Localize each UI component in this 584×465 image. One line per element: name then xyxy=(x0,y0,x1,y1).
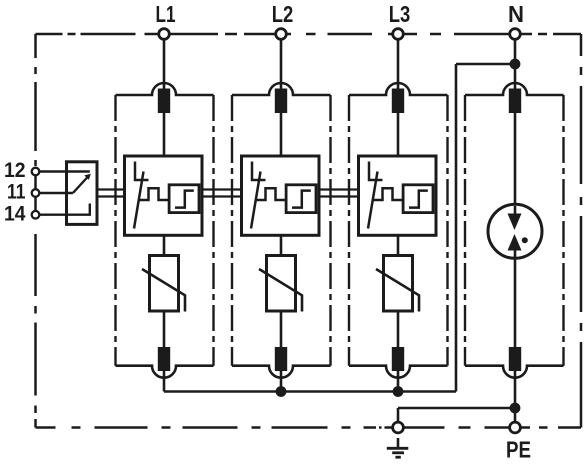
switch box L2 xyxy=(242,156,320,235)
wire N bottom contact to PE terminal xyxy=(514,371,517,422)
module N-PE left border xyxy=(464,95,466,366)
module L2 bottom edge with socket arch xyxy=(232,366,331,378)
wire L2 varistor to bottom contact xyxy=(280,311,283,347)
varistor L3 strike line xyxy=(376,269,419,312)
wire L3 varistor to bottom contact xyxy=(397,311,400,347)
module L1 right border xyxy=(212,95,214,366)
wire L2 contact to switch box xyxy=(280,113,283,156)
switch L2 blade xyxy=(251,172,261,229)
terminal 11 xyxy=(32,189,40,197)
mechanical linkage remote contact to L1 xyxy=(97,190,125,197)
switch L1 trigger waveform xyxy=(139,188,169,200)
outer border top span L1-L2 xyxy=(164,33,281,36)
trigger unit box L2 xyxy=(286,185,316,213)
wire riser to N node xyxy=(456,63,515,66)
module N-PE right border xyxy=(562,95,564,366)
junction node N top xyxy=(510,59,521,70)
wire L3 switch box to varistor xyxy=(397,235,400,256)
thermal disconnector contact bottom L1 xyxy=(158,347,170,371)
module L3 right border xyxy=(446,95,448,366)
terminal 14 xyxy=(32,211,40,219)
spark gap upper electrode arrow xyxy=(508,214,522,231)
svg-text:11: 11 xyxy=(7,181,26,204)
N bus riser wire xyxy=(455,64,458,392)
wire L1 contact to switch box xyxy=(163,113,166,156)
module N-PE top edge with socket arch xyxy=(465,83,564,95)
terminal 12 xyxy=(32,168,40,176)
varistor L3 xyxy=(384,256,413,312)
junction node bus L3 xyxy=(393,386,404,397)
wire L1 bottom contact to N bus xyxy=(163,371,166,392)
remote contact box xyxy=(67,162,98,225)
outer border top-left span xyxy=(36,33,165,36)
terminal 11 wire xyxy=(39,192,73,194)
thermal disconnector contact top L1 xyxy=(158,89,170,114)
svg-text:L3: L3 xyxy=(389,1,411,27)
wire L1 varistor to bottom contact xyxy=(163,311,166,347)
outer border bottom span ground-PE xyxy=(398,426,515,429)
outer border left side solid segment at terminals 12 11 14 xyxy=(34,167,37,219)
terminal L3 xyxy=(393,29,404,40)
module L1 top edge with socket arch xyxy=(116,83,214,95)
wire ground branch horizontal xyxy=(398,407,515,410)
spark gap N-PE circle xyxy=(488,204,542,258)
thermal disconnector contact bottom L2 xyxy=(275,347,287,371)
outer border bottom-right span xyxy=(515,426,581,429)
wire N terminal to top contact xyxy=(514,39,517,89)
module L1 bottom edge with socket arch xyxy=(116,366,214,378)
outer border top span L2-L3 xyxy=(281,33,398,36)
thermal disconnector contact bottom N xyxy=(509,347,521,371)
outer border bottom-left span xyxy=(36,426,399,429)
ground symbol bar 2 xyxy=(392,451,404,454)
thermal disconnector contact bottom L3 xyxy=(392,347,404,371)
svg-text:L1: L1 xyxy=(156,1,176,27)
varistor L1 xyxy=(150,256,179,312)
varistor L2 xyxy=(267,256,296,312)
module L2 left border xyxy=(231,95,233,366)
spark gap wire through circle top xyxy=(514,206,517,218)
terminal L1 xyxy=(159,29,170,40)
terminal 14 wire xyxy=(39,204,90,215)
wire spark gap to bottom contact xyxy=(514,257,517,347)
thermal disconnector contact top N xyxy=(509,89,521,114)
spark gap indicator dot xyxy=(522,237,528,243)
ground symbol bar 1 xyxy=(387,447,409,450)
module L3 bottom edge with socket arch xyxy=(349,366,448,378)
outer border right side xyxy=(580,34,583,428)
terminal ground xyxy=(393,422,404,433)
switch L3 fixed contact stub xyxy=(369,162,383,181)
svg-text:PE: PE xyxy=(506,437,531,463)
switch L2 fixed contact stub xyxy=(252,162,266,181)
trigger unit step symbol L3 xyxy=(409,191,428,208)
module L3 top edge with socket arch xyxy=(349,83,448,95)
terminal PE xyxy=(510,422,521,433)
spark gap wire through circle bottom xyxy=(514,247,517,257)
N bus horizontal wire xyxy=(164,390,456,393)
wire N contact to spark gap xyxy=(514,113,517,206)
wire ground branch drop xyxy=(397,408,400,422)
junction node PE branch xyxy=(510,403,521,414)
outer border left side xyxy=(34,34,37,167)
wire L2 bottom contact to N bus xyxy=(280,371,283,392)
outer border top span L3-N xyxy=(398,33,515,36)
trigger unit step symbol L1 xyxy=(175,191,194,208)
switch L1 blade xyxy=(134,172,144,229)
svg-text:L2: L2 xyxy=(272,1,294,27)
module L1 left border xyxy=(114,95,116,366)
varistor L2 strike line xyxy=(259,269,302,312)
wire L3 bottom contact to N bus xyxy=(397,371,400,392)
svg-text:12: 12 xyxy=(4,159,26,182)
ground symbol stem xyxy=(397,438,400,448)
wire L3 terminal to top contact xyxy=(397,39,400,89)
wire L1 switch box to varistor xyxy=(163,235,166,256)
outer border left side lower span xyxy=(34,219,37,428)
spark gap lower electrode arrow xyxy=(508,234,522,251)
switch L3 blade xyxy=(368,172,378,229)
switch L3 trigger waveform xyxy=(373,188,403,200)
svg-text:14: 14 xyxy=(4,202,26,225)
module L3 left border xyxy=(348,95,350,366)
wire L3 contact to switch box xyxy=(397,113,400,156)
mechanical linkage L2 to L3 xyxy=(319,190,359,197)
switch L1 fixed contact stub xyxy=(135,162,149,181)
mechanical linkage L1 to L2 xyxy=(202,190,242,197)
outer border top-right span xyxy=(515,33,581,36)
junction node bus L2 xyxy=(276,386,287,397)
module L2 right border xyxy=(329,95,331,366)
switch L2 trigger waveform xyxy=(256,188,286,200)
svg-text:N: N xyxy=(508,1,524,27)
module L2 top edge with socket arch xyxy=(232,83,331,95)
changeover contact blade arrowhead xyxy=(84,174,91,180)
wire L2 terminal to top contact xyxy=(280,39,283,89)
varistor L1 strike line xyxy=(142,269,185,312)
terminal N xyxy=(510,29,521,40)
trigger unit step symbol L2 xyxy=(292,191,311,208)
trigger unit box L1 xyxy=(169,185,199,213)
wire L1 terminal to top contact xyxy=(163,39,166,89)
terminal L2 xyxy=(276,29,287,40)
trigger unit box L3 xyxy=(403,185,433,213)
ground symbol bar 3 xyxy=(395,456,400,459)
switch box L3 xyxy=(359,156,437,235)
changeover contact blade xyxy=(73,176,89,194)
switch box L1 xyxy=(125,156,203,235)
thermal disconnector contact top L3 xyxy=(392,89,404,114)
wire L2 switch box to varistor xyxy=(280,235,283,256)
thermal disconnector contact top L2 xyxy=(275,89,287,114)
terminal 12 wire xyxy=(39,170,90,172)
module N-PE bottom edge with socket arch xyxy=(465,366,564,378)
